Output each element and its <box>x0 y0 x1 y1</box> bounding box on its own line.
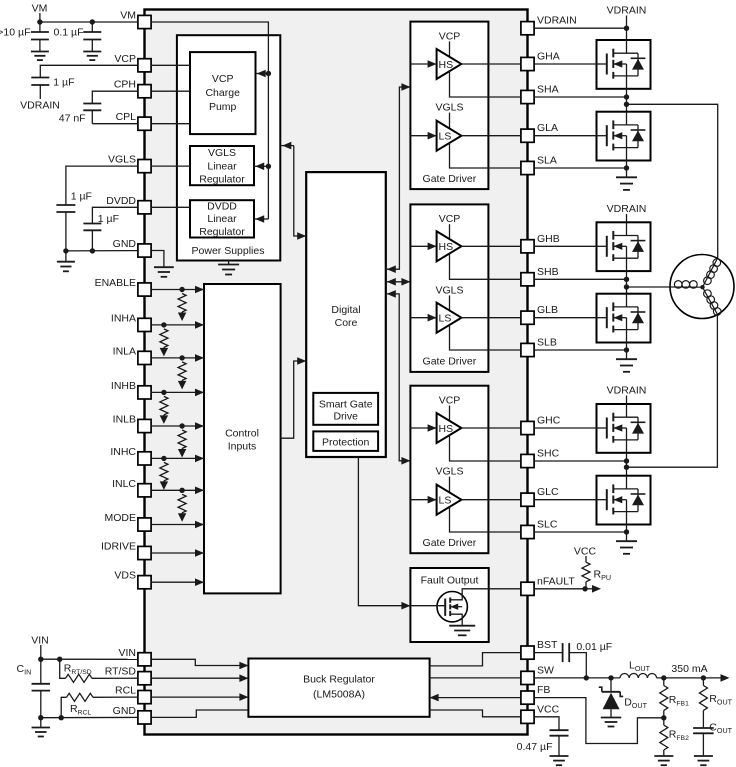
svg-text:HS: HS <box>439 241 454 253</box>
block fault output box <box>410 568 488 642</box>
svg-text:VDRAIN: VDRAIN <box>607 5 647 17</box>
svg-text:LS: LS <box>439 495 452 507</box>
svg-text:47 nF: 47 nF <box>59 112 86 124</box>
capacitor 1 uF DVDD <box>83 224 101 251</box>
wire GLB pin to FET gate <box>534 317 596 319</box>
junction VIN at CIN <box>38 657 43 662</box>
svg-text:GND: GND <box>113 238 137 250</box>
wire phase C switch node <box>626 453 628 476</box>
wire phase C to motor <box>627 314 718 467</box>
diode DOUT schottky <box>599 678 623 718</box>
svg-text:SW: SW <box>537 664 554 676</box>
svg-text:VDRAIN: VDRAIN <box>20 100 60 112</box>
svg-text:ROUT: ROUT <box>709 693 732 707</box>
wire digital core to fault output <box>358 457 410 610</box>
wire nFAULT pin out <box>534 585 601 593</box>
svg-text:MODE: MODE <box>105 512 137 524</box>
pin INLC (left 14) <box>112 478 151 497</box>
svg-text:VIN: VIN <box>31 635 49 647</box>
pin GLA (right 4) <box>521 122 558 142</box>
wire 47nF to CPL pin <box>92 123 138 125</box>
junction phase C output <box>624 465 629 470</box>
label RFB1 <box>669 694 689 708</box>
wire VDRAIN stem phase A <box>626 16 628 41</box>
svg-text:RFB1: RFB1 <box>669 694 689 708</box>
wire RT/SD pin to buck <box>151 674 248 682</box>
svg-text:Inputs: Inputs <box>228 441 257 453</box>
wire VIN label stem <box>40 645 42 659</box>
ground phase C <box>616 541 637 554</box>
ground below bulk cap <box>31 52 49 61</box>
wire VM feed into charge pump <box>256 70 269 78</box>
svg-text:350 mA: 350 mA <box>671 663 707 675</box>
label 0.01 uF <box>576 641 612 653</box>
node VDRAIN label phase C <box>607 385 647 397</box>
pin SW (right 16) <box>521 664 554 684</box>
ground below power supplies box <box>218 261 239 275</box>
svg-text:Gate Driver: Gate Driver <box>423 356 477 368</box>
transistor low-side FET A <box>597 112 651 161</box>
pin VDS (left 17) <box>114 570 151 589</box>
junction VDRAIN phase A <box>624 26 629 31</box>
wire power supplies to digital core <box>281 142 306 240</box>
junction phase A output <box>624 102 629 107</box>
wire VM feed into VGLS regulator <box>254 163 268 171</box>
svg-text:VIN: VIN <box>118 647 136 659</box>
transistor low-side FET C <box>597 476 651 525</box>
svg-text:IDRIVE: IDRIVE <box>101 541 136 553</box>
svg-text:Power Supplies: Power Supplies <box>192 245 265 257</box>
wire buck to SW pin <box>430 677 521 679</box>
svg-text:SHB: SHB <box>537 266 559 278</box>
pin CPH (left 3) <box>114 79 151 98</box>
pin BST (right 15) <box>521 639 558 659</box>
label 350 mA <box>671 663 707 675</box>
node VIN net label <box>31 635 49 647</box>
svg-text:Charge: Charge <box>205 87 240 99</box>
wire VM rail to VM pin <box>40 21 138 23</box>
svg-text:Control: Control <box>225 428 259 440</box>
svg-text:Fault Output: Fault Output <box>421 575 479 587</box>
label Power Supplies <box>192 245 265 257</box>
svg-text:Buck Regulator: Buck Regulator <box>303 674 375 686</box>
svg-text:Pump: Pump <box>209 101 237 113</box>
svg-text:SHA: SHA <box>537 84 559 96</box>
wire INLA to control inputs with pulldown resistor <box>151 354 204 389</box>
pin GHA (right 2) <box>521 51 560 71</box>
svg-text:GND: GND <box>113 705 137 717</box>
junction output at RFB1 <box>661 675 666 680</box>
wire VCP pin to flying cap <box>40 65 138 77</box>
svg-text:BST: BST <box>537 639 558 651</box>
wire CPL pin to charge pump <box>151 123 190 125</box>
svg-text:VGLS: VGLS <box>208 147 236 159</box>
svg-text:1 µF: 1 µF <box>71 191 92 203</box>
svg-text:VM: VM <box>120 10 136 22</box>
junction VM feed at charge pump <box>266 71 271 76</box>
wire RCL pin to buck <box>151 693 248 701</box>
svg-text:INLA: INLA <box>113 345 136 357</box>
svg-text:VDS: VDS <box>114 570 136 582</box>
capacitor CIN <box>32 659 51 718</box>
transistor high-side FET C <box>597 404 651 453</box>
wire SLA pin to source <box>534 167 626 169</box>
wire GHA pin to FET gate <box>534 63 596 65</box>
wire inductor to output <box>657 674 730 682</box>
svg-text:1 µF: 1 µF <box>98 213 119 225</box>
node VM net label <box>32 2 48 14</box>
block gate driver C with HS LS buffers <box>410 386 521 554</box>
svg-text:VCP: VCP <box>439 213 461 225</box>
node VDRAIN label phase A <box>607 5 647 17</box>
wire VIN rail to VIN pin <box>41 658 138 660</box>
capacitor COUT <box>693 728 714 756</box>
svg-text:Smart Gate: Smart Gate <box>319 399 373 411</box>
svg-text:SLA: SLA <box>537 155 557 167</box>
svg-text:DVDD: DVDD <box>207 200 237 212</box>
wire VCP pin to charge pump <box>151 64 190 66</box>
svg-text:>10 µF: >10 µF <box>0 26 31 38</box>
block smart gate drive <box>313 393 378 425</box>
wire VDRAIN stem phase C <box>626 396 628 405</box>
wire CPH pin to charge pump <box>151 90 190 92</box>
transistor high-side FET A <box>597 40 651 89</box>
svg-text:CPH: CPH <box>114 79 136 91</box>
junction FB node <box>661 715 666 720</box>
svg-text:RPU: RPU <box>594 569 612 583</box>
wire phase A switch node <box>626 89 628 112</box>
transistor low-side FET B <box>597 294 651 343</box>
junction SHB <box>624 277 629 282</box>
svg-text:INLC: INLC <box>112 478 136 490</box>
block control inputs <box>204 284 281 593</box>
wire gnd rail to GND pin <box>41 716 138 718</box>
resistor RFB2 <box>660 718 668 756</box>
label 1 uF (VCP) <box>53 77 74 89</box>
svg-text:Regulator: Regulator <box>199 226 245 238</box>
wire control inputs to digital core <box>281 357 307 438</box>
svg-text:Digital: Digital <box>331 304 360 316</box>
pin INLA (left 10) <box>113 345 151 364</box>
svg-text:SHC: SHC <box>537 448 560 460</box>
wire CPH pin to 47nF <box>92 91 138 103</box>
svg-text:CPL: CPL <box>116 111 137 123</box>
svg-text:Gate Driver: Gate Driver <box>423 173 477 185</box>
pin INHA (left 9) <box>111 312 151 331</box>
block buck regulator LM5008A <box>248 659 429 717</box>
svg-text:VCP: VCP <box>439 30 461 42</box>
label 47 nF <box>59 112 86 124</box>
capacitor 0.01 uF boot <box>563 643 570 662</box>
junction SLB <box>624 347 629 352</box>
junction CIN to gnd rail <box>38 715 43 720</box>
junction output at ROUT <box>701 675 706 680</box>
pin SLC (right 13) <box>521 519 558 539</box>
ground internal GND <box>154 267 174 277</box>
capacitor 0.1 uF bypass <box>83 22 101 51</box>
svg-text:RRT/SD: RRT/SD <box>64 663 92 677</box>
wire BST pin to boot cap <box>534 652 563 654</box>
svg-text:VDRAIN: VDRAIN <box>607 385 647 397</box>
resistor RFB1 <box>660 678 668 718</box>
svg-text:nFAULT: nFAULT <box>537 575 575 587</box>
wire FB pin feedback path <box>534 698 664 744</box>
label RPU <box>594 569 612 583</box>
svg-text:CIN: CIN <box>17 663 32 677</box>
junction SW at boot cap <box>584 675 589 680</box>
wire DVDD pin to cap <box>92 207 137 223</box>
svg-text:LS: LS <box>439 313 452 325</box>
svg-text:VGLS: VGLS <box>435 466 463 478</box>
svg-text:0.47 µF: 0.47 µF <box>517 741 553 753</box>
svg-text:1 µF: 1 µF <box>53 77 74 89</box>
svg-text:GHA: GHA <box>537 51 560 63</box>
label RRT/SD <box>64 663 92 677</box>
wire phase A to motor <box>627 104 718 258</box>
wire VGLS pin to regulator <box>151 165 190 167</box>
wire SHB pin to switch node <box>534 278 626 280</box>
wire VIN pin to buck <box>151 659 248 669</box>
svg-text:VGLS: VGLS <box>435 102 463 114</box>
wire GLC pin to FET gate <box>534 499 596 501</box>
svg-text:Core: Core <box>335 317 358 329</box>
svg-text:Protection: Protection <box>322 437 369 449</box>
resistor RPU pullup <box>582 556 590 589</box>
node VCC label above RPU <box>574 546 597 558</box>
capacitor 1 uF VGLS <box>56 205 75 251</box>
pin MODE (left 15) <box>105 512 152 531</box>
wire SLC pin to source <box>534 531 626 533</box>
wire GHC pin to FET gate <box>534 427 596 429</box>
svg-text:RT/SD: RT/SD <box>105 666 137 678</box>
wire buck to VCC pin <box>430 710 521 717</box>
label 1 uF (VGLS) <box>71 191 92 203</box>
wire INHC to control inputs with pulldown resistor <box>151 455 204 490</box>
svg-text:INLB: INLB <box>113 414 136 426</box>
transistor nFAULT open-drain MOSFET <box>410 589 521 636</box>
wire GND pin to internal ground <box>151 251 164 268</box>
pin SLA (right 5) <box>521 155 557 175</box>
wire low FET B source to ground <box>626 343 628 360</box>
label >10 uF <box>0 26 31 38</box>
wire GND pin to buck <box>151 710 248 717</box>
wire VGLS pin to cap <box>66 166 138 205</box>
label 0.1 uF <box>54 26 84 38</box>
block VGLS linear regulator <box>190 146 254 185</box>
wire INHB to control inputs with pulldown resistor <box>151 389 204 424</box>
block VCP charge pump <box>190 52 256 134</box>
svg-text:VDRAIN: VDRAIN <box>537 15 577 27</box>
svg-text:RFB2: RFB2 <box>669 729 689 743</box>
resistor ROUT <box>699 678 707 728</box>
pin nFAULT (right 14) <box>521 575 575 595</box>
wire VDRAIN stem phase B <box>626 214 628 222</box>
ground below 0.47uF cap <box>550 756 569 765</box>
pin GLC (right 12) <box>521 486 559 506</box>
ground below CIN <box>32 718 51 737</box>
svg-text:0.1 µF: 0.1 µF <box>54 26 84 38</box>
block digital core <box>306 172 386 457</box>
wire external gnd rail to GND pin <box>66 250 138 252</box>
wire INLB to control inputs with pulldown resistor <box>151 422 204 457</box>
pin GLB (right 8) <box>521 304 558 324</box>
label 0.47 uF <box>517 741 553 753</box>
wire SLB pin to source <box>534 349 626 351</box>
svg-text:0.01 µF: 0.01 µF <box>576 641 612 653</box>
pin INHC (left 13) <box>110 446 151 465</box>
wire VDRAIN pin to bridge <box>534 27 626 29</box>
pin VCP (left 2) <box>114 53 151 72</box>
svg-text:VCP: VCP <box>114 53 136 65</box>
wire phase B to motor <box>627 286 671 288</box>
svg-text:INHB: INHB <box>111 380 136 392</box>
label 1 uF (DVDD) <box>98 213 119 225</box>
svg-text:GHB: GHB <box>537 233 560 245</box>
wire DVDD pin to regulator <box>151 206 190 208</box>
svg-text:VCP: VCP <box>439 395 461 407</box>
svg-text:Regulator: Regulator <box>199 173 245 185</box>
pin FB (right 17) <box>521 684 551 704</box>
pin SHC (right 11) <box>521 448 560 468</box>
wire MODE to control inputs <box>151 521 204 529</box>
svg-text:COUT: COUT <box>709 722 732 736</box>
ground below RFB2 <box>654 756 673 765</box>
svg-text:VDRAIN: VDRAIN <box>607 203 647 215</box>
block gate driver B with HS LS buffers <box>410 204 521 372</box>
pin ENABLE (left 8) <box>95 277 152 296</box>
junction VM feed at VGLS <box>266 164 271 169</box>
svg-text:Drive: Drive <box>333 411 358 423</box>
svg-text:RRCL: RRCL <box>70 703 91 717</box>
junction VGLS cap to gnd rail <box>63 248 68 253</box>
pin INLB (left 12) <box>113 414 151 433</box>
motor 3-phase BLDC <box>670 255 734 319</box>
svg-text:GLB: GLB <box>537 304 558 316</box>
transistor high-side FET B <box>597 222 651 271</box>
svg-text:FB: FB <box>537 684 550 696</box>
svg-text:Gate Driver: Gate Driver <box>423 537 477 549</box>
svg-text:INHC: INHC <box>110 446 136 458</box>
svg-text:VM: VM <box>32 2 48 14</box>
capacitor >10 uF bulk <box>31 22 49 51</box>
junction phase B output <box>624 284 629 289</box>
wire ENABLE to control inputs with pulldown resistor <box>151 286 204 321</box>
svg-text:LOUT: LOUT <box>629 660 651 674</box>
label ROUT <box>709 693 732 707</box>
wire digital core to gate driver C <box>387 290 411 465</box>
pin GHC (right 10) <box>521 415 561 435</box>
block DVDD linear regulator <box>190 200 254 238</box>
label LOUT <box>629 660 651 674</box>
pin VCC (right 18) <box>521 703 560 723</box>
svg-text:VGLS: VGLS <box>108 154 136 166</box>
svg-text:LS: LS <box>439 131 452 143</box>
wire SHA pin to switch node <box>534 96 626 98</box>
ground phase A <box>616 177 637 190</box>
capacitor 47 nF charge pump <box>83 104 101 124</box>
svg-text:DOUT: DOUT <box>624 697 647 711</box>
junction VM rail at C1 <box>37 19 42 24</box>
svg-text:VCP: VCP <box>212 73 234 85</box>
ground phase B <box>616 359 637 372</box>
junction nFAULT at RPU <box>582 586 587 591</box>
node VDRAIN label below VCP cap <box>20 100 60 112</box>
pin IDRIVE (left 16) <box>101 541 151 560</box>
svg-text:VCC: VCC <box>574 546 597 558</box>
svg-text:Linear: Linear <box>207 160 237 172</box>
junction VIN at RRTSD drop <box>57 657 62 662</box>
svg-text:(LM5008A): (LM5008A) <box>313 689 365 701</box>
wire VM feed into DVDD regulator <box>254 215 268 223</box>
svg-text:HS: HS <box>439 423 454 435</box>
svg-text:VGLS: VGLS <box>435 284 463 296</box>
pin GND (left 7) <box>113 238 151 257</box>
wire boot cap to SW node <box>569 653 586 678</box>
pin SLB (right 9) <box>521 337 557 357</box>
wire phase B switch node <box>626 271 628 294</box>
wire low FET A source to ground <box>626 161 628 178</box>
ground below VGLS cap <box>57 251 75 271</box>
label RRCL <box>70 703 91 717</box>
wire VM pin internal feed <box>151 22 268 219</box>
pin VGLS (left 5) <box>108 154 151 173</box>
pin VM (left 1) <box>120 10 151 29</box>
pin SHB (right 7) <box>521 266 559 286</box>
junction RRCL to gnd rail <box>59 715 64 720</box>
pin VIN (left 18) <box>118 647 151 666</box>
wire SHC pin to switch node <box>534 460 626 462</box>
svg-text:SLB: SLB <box>537 337 557 349</box>
wire INHA to control inputs with pulldown resistor <box>151 321 204 356</box>
wire SW pin to inductor <box>534 677 620 679</box>
pin CPL (left 4) <box>116 111 152 130</box>
svg-text:SLC: SLC <box>537 519 558 531</box>
svg-text:RCL: RCL <box>115 685 136 697</box>
wire GHB pin to FET gate <box>534 245 596 247</box>
resistor RRT/SD <box>60 659 138 682</box>
block gate driver A with HS LS buffers <box>410 22 521 190</box>
ground below DOUT <box>601 718 622 727</box>
pin INHB (left 11) <box>111 380 151 399</box>
wire IDRIVE to control inputs <box>151 549 204 557</box>
ground below 0.1uF cap <box>83 52 101 61</box>
capacitor 1 uF VCP <box>31 78 49 100</box>
wire VCC pin to bypass cap <box>534 717 559 730</box>
wire INLC to control inputs with pulldown resistor <box>151 487 204 522</box>
wire digital core to gate driver A <box>387 83 411 273</box>
wire VDS to control inputs <box>151 578 204 586</box>
pin DVDD (left 6) <box>106 195 151 214</box>
label CIN <box>17 663 32 677</box>
pin GHB (right 6) <box>521 233 560 253</box>
label DOUT <box>624 697 647 711</box>
wire VM label stem <box>39 13 41 22</box>
label RFB2 <box>669 729 689 743</box>
pin SHA (right 3) <box>521 84 559 104</box>
svg-text:INHA: INHA <box>111 312 136 324</box>
block protection <box>313 431 378 451</box>
label COUT <box>709 722 732 736</box>
svg-text:GLC: GLC <box>537 486 559 498</box>
svg-text:DVDD: DVDD <box>106 195 136 207</box>
capacitor 0.47 uF VCC bypass <box>550 730 569 756</box>
ground below COUT <box>694 756 713 765</box>
pin VDRAIN (right 1) <box>521 15 577 35</box>
svg-text:VCC: VCC <box>537 703 560 715</box>
IC main body DRV8305 <box>145 10 528 735</box>
junction SHC <box>624 458 629 463</box>
junction SW at DOUT <box>608 675 613 680</box>
